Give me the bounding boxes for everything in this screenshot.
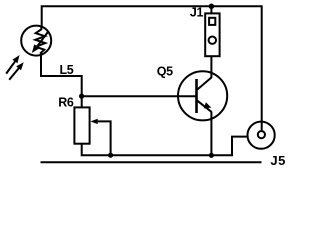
connector J1 (205, 13, 219, 56)
wire bottom from R6 to corner (82, 137, 248, 156)
node A junction dot (79, 94, 84, 99)
photoresistor L5 inner arrowhead (32, 44, 40, 53)
junction dot emitter-bottom (209, 153, 214, 158)
light arrow 1 (6, 55, 19, 74)
potentiometer R6 wiper arrowhead (90, 119, 97, 124)
wire Q5 emitter down (210, 112, 212, 157)
photoresistor L5 (21, 26, 51, 56)
junction dot wiper-bottom (108, 153, 113, 158)
transistor Q5 (178, 71, 227, 120)
svg-text:J5: J5 (270, 153, 285, 166)
junction dot top (209, 4, 215, 10)
light arrow 2 (9, 62, 24, 80)
wire base from node A to Q5 (82, 95, 198, 97)
jack J5 (248, 122, 275, 149)
svg-text:L5: L5 (60, 63, 74, 77)
potentiometer R6 (74, 107, 89, 143)
wire R6 wiper to bottom (98, 121, 111, 155)
svg-text:J1: J1 (190, 6, 204, 20)
ground rail (41, 161, 262, 163)
wire L5 bottom elbow to node A (41, 54, 82, 108)
transistor Q5 emitter arrowhead (204, 102, 212, 108)
wire J1 bottom to Q5 collector (210, 56, 212, 78)
wire top rail (42, 6, 262, 131)
wire J1 top lead (210, 6, 212, 13)
svg-text:Q5: Q5 (157, 64, 173, 78)
svg-text:R6: R6 (58, 95, 74, 109)
